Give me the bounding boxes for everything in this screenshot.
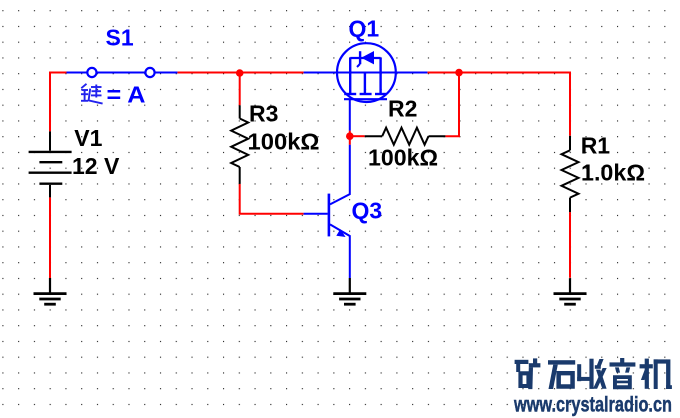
svg-text:R1: R1 — [581, 133, 611, 159]
svg-text:Q3: Q3 — [352, 198, 383, 224]
svg-text:S1: S1 — [106, 25, 134, 51]
svg-text:100kΩ: 100kΩ — [368, 145, 438, 171]
svg-text:R2: R2 — [388, 96, 417, 122]
svg-text:100kΩ: 100kΩ — [248, 129, 320, 155]
svg-text:1.0kΩ: 1.0kΩ — [581, 160, 645, 186]
svg-text:Q1: Q1 — [349, 16, 380, 42]
svg-text:= A: = A — [107, 82, 146, 108]
svg-text:R3: R3 — [249, 101, 278, 127]
svg-text:12 V: 12 V — [72, 153, 120, 179]
svg-text:www.crystalradio.cn: www.crystalradio.cn — [513, 394, 672, 417]
svg-text:V1: V1 — [74, 125, 102, 151]
